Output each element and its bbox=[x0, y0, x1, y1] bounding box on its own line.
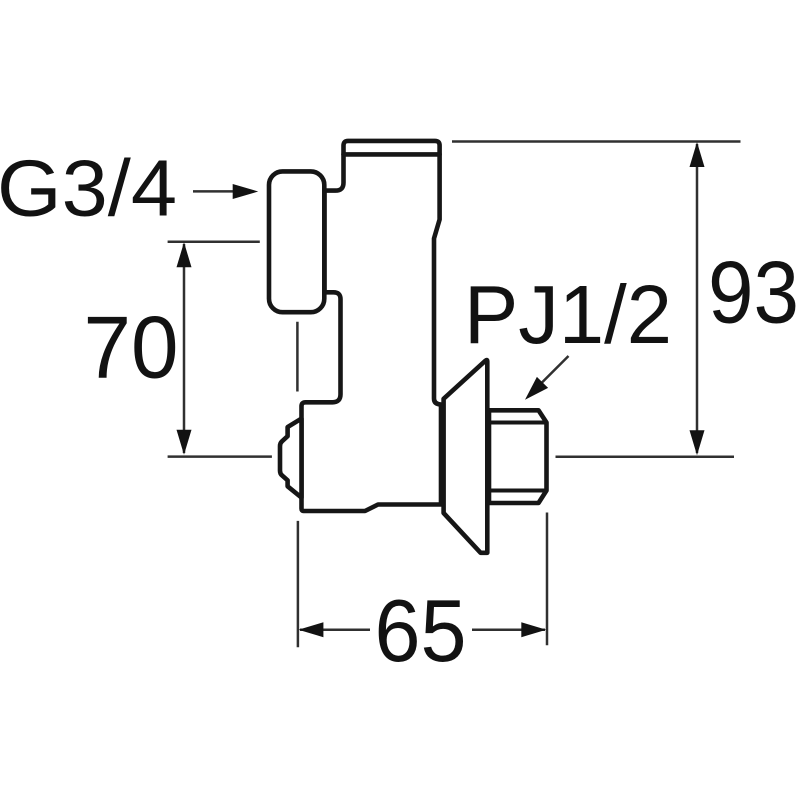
G3/4 arrowhead bbox=[233, 184, 259, 199]
dim 70 arrow down bbox=[177, 430, 192, 455]
dim 65 extension left bbox=[297, 521, 300, 647]
dim 65 line left part bbox=[300, 628, 370, 631]
centerline below pill bbox=[296, 322, 299, 392]
svg-text:70: 70 bbox=[84, 298, 179, 397]
dim 65 arrow left bbox=[298, 622, 323, 637]
svg-text:PJ1/2: PJ1/2 bbox=[464, 269, 672, 361]
dim 93 extension bottom bbox=[556, 456, 735, 459]
dim 93 extension top bbox=[452, 140, 741, 143]
outlet nozzle steps (left) bbox=[280, 419, 302, 498]
dim 70 arrow up bbox=[177, 242, 192, 267]
dim 93 arrow down bbox=[690, 430, 705, 455]
svg-text:65: 65 bbox=[375, 581, 467, 680]
dim 65 arrow right bbox=[521, 622, 546, 637]
dim 93 arrow up bbox=[690, 142, 705, 167]
cap separation line bbox=[344, 152, 440, 157]
dim 93 line bbox=[696, 144, 699, 453]
G3/4 supply pill connector bbox=[269, 171, 324, 312]
svg-text:93: 93 bbox=[708, 242, 799, 341]
G3/4 leader line bbox=[193, 190, 240, 193]
PJ1/2 arrowhead bbox=[525, 377, 548, 400]
PJ1/2 leader line bbox=[534, 356, 569, 391]
dim 70 line bbox=[183, 244, 186, 453]
PJ1/2 threaded nut bbox=[489, 410, 547, 503]
nut chamfer inner lines bbox=[489, 423, 547, 491]
dim 70 extension bottom bbox=[168, 455, 272, 458]
svg-text:G3/4: G3/4 bbox=[0, 144, 177, 233]
valve body outline bbox=[302, 141, 442, 511]
wall flange (trapezoid) bbox=[444, 360, 488, 553]
dim 70 extension top bbox=[168, 240, 260, 243]
dim 65 extension right bbox=[546, 513, 549, 646]
dim 65 line right part bbox=[472, 628, 545, 631]
